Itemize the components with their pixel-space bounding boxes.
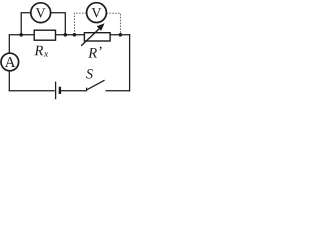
node junction dot (V2 dashed left) <box>73 33 77 37</box>
wire bottom branch left segment <box>9 90 55 92</box>
dashed lead voltmeter V2 right <box>107 13 121 34</box>
rheostat R' body <box>84 33 110 41</box>
voltmeter V2 letter <box>92 8 102 17</box>
wire top branch left segment <box>9 34 35 36</box>
wire left vertical upper (corner to ammeter) <box>8 35 10 54</box>
node junction dot (V2 dashed right) <box>119 33 123 37</box>
ammeter A circle <box>1 53 19 71</box>
rheostat R' arrowhead <box>97 23 105 31</box>
wire top branch middle segment <box>55 34 85 36</box>
voltmeter V2 circle <box>87 3 107 23</box>
rheostat R' arrow shaft <box>81 28 100 46</box>
switch S blade <box>87 80 105 90</box>
ammeter A letter <box>5 57 16 67</box>
voltmeter V1 letter <box>36 8 46 17</box>
wire left vertical lower (ammeter to bottom corner) <box>8 70 10 91</box>
node junction dot left (Rx / V1 left) <box>19 33 23 37</box>
battery long plate <box>55 82 57 100</box>
switch S pivot tick <box>86 88 88 92</box>
wire right vertical <box>129 34 131 91</box>
resistor Rx body <box>34 30 55 40</box>
wire voltmeter V1 left lead <box>21 13 31 35</box>
wire voltmeter V1 right lead <box>51 13 66 35</box>
label Rx <box>34 46 48 57</box>
voltmeter V1 circle <box>31 3 51 23</box>
battery short plate <box>59 87 61 94</box>
dashed lead voltmeter V2 left <box>74 13 86 34</box>
wire top branch right segment <box>110 34 130 36</box>
node junction dot (V1 right) <box>64 33 68 37</box>
wire bottom branch middle segment (battery to switch) <box>61 90 87 92</box>
label S <box>86 69 93 78</box>
label R' <box>88 47 101 58</box>
wire bottom branch right segment <box>106 90 131 92</box>
